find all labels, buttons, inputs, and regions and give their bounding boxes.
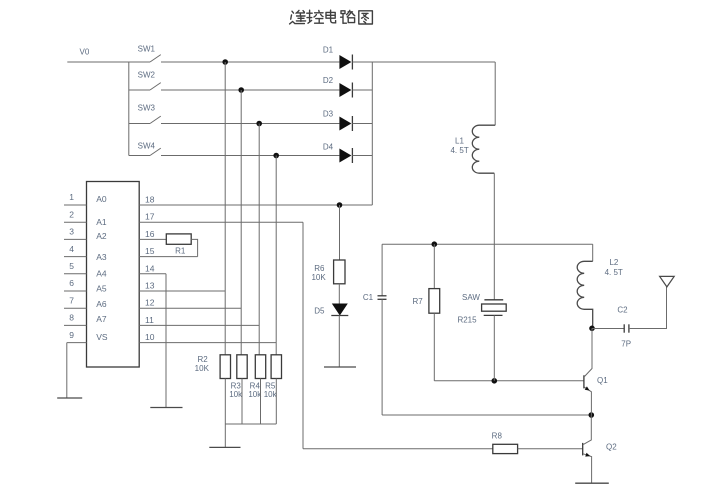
inductor L2: [577, 258, 623, 328]
wire D1 cathode to L1: [352, 61, 495, 63]
svg-text:4. 5T: 4. 5T: [605, 268, 623, 277]
svg-text:13: 13: [145, 281, 155, 291]
svg-text:9: 9: [69, 330, 74, 340]
svg-text:D2: D2: [323, 76, 334, 85]
wire SW4 column: [275, 156, 277, 355]
node junction L2 / C2 / Q1 collector: [589, 326, 595, 332]
svg-text:10k: 10k: [264, 390, 278, 399]
svg-text:R4: R4: [250, 381, 261, 390]
resistor R5: [264, 355, 282, 399]
wire SAW bottom lead: [493, 315, 495, 380]
svg-text:R7: R7: [412, 297, 423, 306]
wire pin17 down column: [302, 222, 304, 449]
svg-text:16: 16: [145, 229, 155, 239]
wire R8 to Q2 base: [518, 448, 583, 450]
svg-text:10K: 10K: [195, 364, 210, 373]
svg-text:SW3: SW3: [138, 103, 156, 112]
wire R5 bottom: [275, 379, 277, 425]
diode D1: [323, 45, 353, 69]
capacitor C2: [617, 306, 631, 349]
wire D4 cathode to bus: [352, 155, 372, 157]
wire diode bus vertical: [371, 62, 373, 205]
svg-text:4: 4: [69, 244, 74, 254]
svg-text:SW4: SW4: [138, 141, 156, 150]
switch SW1: [138, 44, 161, 62]
wire R3 bottom: [241, 379, 243, 425]
pin 13: [139, 281, 225, 292]
wire D5 to ground: [338, 316, 340, 368]
wire switch feed vertical: [128, 62, 130, 156]
resistor R4: [248, 355, 265, 399]
resistor R2: [195, 355, 231, 379]
svg-text:Q1: Q1: [597, 376, 608, 385]
node junction SAW / base line: [492, 378, 498, 384]
svg-text:5: 5: [69, 261, 74, 271]
svg-text:SAW: SAW: [462, 293, 480, 302]
ground VS: [57, 397, 82, 399]
svg-text:A6: A6: [96, 299, 107, 309]
wire R7 bottom lead: [433, 313, 435, 381]
svg-text:D1: D1: [323, 45, 334, 54]
svg-text:15: 15: [145, 246, 155, 256]
inductor L1: [450, 125, 495, 173]
svg-text:18: 18: [145, 195, 155, 205]
svg-text:10k: 10k: [229, 390, 243, 399]
pin 14: [139, 263, 166, 274]
svg-text:A4: A4: [96, 269, 107, 279]
pin 4: [64, 244, 87, 257]
wire SW3 to D3: [161, 123, 339, 125]
svg-text:D3: D3: [323, 109, 334, 118]
title 遥控电路图 (drawn as paths): [290, 10, 373, 24]
node junction SW2 column: [238, 87, 244, 93]
svg-text:1: 1: [69, 192, 74, 202]
svg-text:D4: D4: [323, 143, 334, 152]
resistor R6: [311, 260, 345, 284]
resistor R7: [412, 289, 439, 314]
pin 12: [139, 298, 241, 309]
wire L1 top lead: [494, 62, 496, 125]
svg-text:A1: A1: [96, 217, 107, 227]
wire oscillator top rail: [382, 243, 593, 245]
node junction top rail / R7: [432, 241, 438, 247]
wire R2 bottom to ground: [224, 379, 226, 448]
svg-text:10K: 10K: [311, 273, 326, 282]
pin 10: [139, 332, 276, 343]
svg-text:R8: R8: [492, 431, 503, 440]
node junction SW1 column: [222, 59, 228, 65]
wire SW2 to D2: [161, 89, 339, 91]
pin 18: [139, 195, 372, 206]
node junction bottom rail / Q1 emitter: [589, 412, 595, 418]
wire SW1 to D1: [161, 61, 339, 63]
svg-text:C1: C1: [363, 293, 374, 302]
wire R4 bottom: [260, 379, 262, 425]
diode D4: [323, 143, 353, 163]
svg-text:SW1: SW1: [138, 44, 156, 53]
pin 15: [139, 246, 197, 257]
wire C1 top lead: [381, 244, 383, 296]
pin 3: [64, 227, 87, 240]
node junction SW3 column: [256, 121, 262, 127]
svg-text:L1: L1: [455, 137, 464, 146]
svg-text:A2: A2: [96, 231, 107, 241]
wire VS to ground: [66, 343, 68, 398]
wire SW2 column: [240, 90, 242, 355]
ground pin14: [150, 407, 182, 409]
wire C1 bottom lead: [381, 299, 383, 415]
transistor Q2: [583, 443, 618, 483]
ground D5: [324, 366, 356, 368]
svg-text:L2: L2: [609, 258, 618, 267]
wire R8 lead from pin17 column: [303, 448, 493, 450]
resonator SAW R215: [457, 293, 506, 325]
wire Q1 collector: [585, 328, 592, 376]
wire D3 cathode to bus: [352, 123, 372, 125]
switch SW3: [129, 103, 161, 123]
ground Q2 emitter: [575, 482, 609, 484]
svg-text:A0: A0: [96, 194, 107, 204]
transistor Q1: [584, 375, 608, 415]
node junction pin18/R6: [337, 202, 343, 208]
diode D5: [314, 304, 348, 316]
wire L2 top lead: [592, 244, 594, 261]
svg-text:SW2: SW2: [138, 71, 156, 80]
svg-text:6: 6: [69, 278, 74, 288]
diode D3: [323, 109, 353, 131]
svg-text:R6: R6: [314, 264, 325, 273]
wire Q1 base line: [434, 380, 584, 382]
pin 17: [139, 212, 303, 223]
wire C2 to antenna: [629, 287, 667, 329]
switch SW4: [129, 141, 161, 155]
wire R6 to D5: [338, 284, 340, 304]
ground R2: [209, 446, 240, 448]
wire resistor bottoms connector: [225, 423, 276, 425]
svg-text:12: 12: [145, 298, 155, 308]
wire pin18 node to R6: [339, 205, 341, 260]
svg-text:14: 14: [145, 263, 155, 273]
wire L1 bottom to SAW: [493, 173, 495, 300]
svg-text:R2: R2: [197, 355, 208, 364]
wire R1 to pin15: [191, 239, 197, 256]
svg-text:V0: V0: [80, 48, 90, 57]
pin 5: [64, 261, 87, 274]
wire oscillator bottom rail: [382, 414, 591, 416]
pin 6: [64, 278, 87, 291]
wire C2 left lead: [592, 328, 624, 330]
svg-text:7: 7: [69, 295, 74, 305]
svg-text:10: 10: [145, 332, 155, 342]
svg-text:R3: R3: [231, 381, 242, 390]
node junction SW4 column: [273, 153, 279, 159]
wire Q2 collector: [583, 415, 591, 444]
wire R7 top lead: [433, 244, 435, 288]
svg-text:A3: A3: [96, 252, 107, 262]
svg-text:2: 2: [69, 209, 74, 219]
switch SW2: [129, 71, 161, 91]
wire pin14 to ground: [165, 274, 167, 408]
svg-text:C2: C2: [617, 306, 628, 315]
antenna: [660, 276, 675, 287]
wire D2 cathode to bus: [352, 89, 372, 91]
svg-text:A5: A5: [96, 283, 107, 293]
wire SW3 column: [258, 124, 260, 355]
pin 16: [139, 229, 166, 240]
pin 8: [64, 313, 87, 326]
svg-text:3: 3: [69, 227, 74, 237]
wire V0 feed: [67, 61, 150, 63]
resistor R1: [166, 234, 191, 256]
svg-text:17: 17: [145, 212, 155, 222]
pin 11: [139, 315, 259, 326]
svg-text:R5: R5: [265, 381, 276, 390]
svg-text:11: 11: [145, 315, 154, 325]
svg-text:R215: R215: [457, 316, 477, 325]
svg-text:Q2: Q2: [606, 443, 617, 452]
op IC U1 encoder box: [87, 182, 140, 368]
capacitor C1: [363, 293, 387, 302]
resistor R3: [229, 355, 247, 399]
svg-text:4. 5T: 4. 5T: [450, 146, 468, 155]
pin 2: [64, 209, 87, 222]
pin 7: [64, 295, 87, 308]
svg-text:D5: D5: [314, 306, 325, 315]
wire SW1 column: [224, 62, 226, 355]
diode D2: [323, 76, 353, 98]
pin 9: [67, 330, 87, 343]
resistor R8: [492, 431, 518, 453]
svg-text:A7: A7: [96, 314, 107, 324]
svg-text:7P: 7P: [621, 340, 631, 349]
svg-text:8: 8: [69, 313, 74, 323]
svg-text:R1: R1: [175, 247, 186, 256]
pin 1: [64, 192, 87, 205]
wire SW4 to D4: [161, 155, 339, 157]
svg-text:VS: VS: [96, 332, 108, 342]
